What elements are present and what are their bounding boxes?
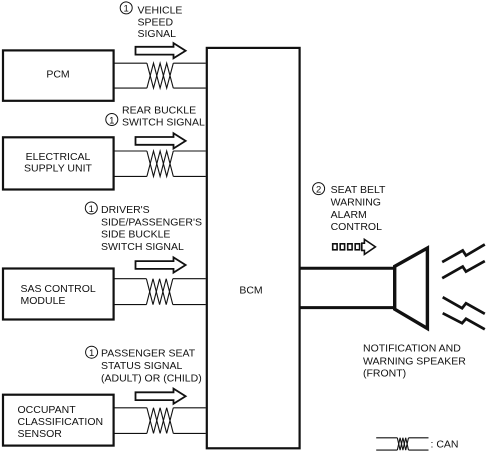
CAN bus ESU to BCM : wire top (115, 150, 206, 152)
svg-text:WARNING SPEAKER: WARNING SPEAKER (363, 355, 466, 367)
legend CAN symbol : wire top (376, 437, 428, 439)
svg-text:SENSOR: SENSOR (18, 428, 63, 440)
dashed control arrow : square 4 (355, 244, 359, 250)
svg-text:NOTIFICATION AND: NOTIFICATION AND (363, 343, 461, 355)
legend CAN symbol : wire bottom (376, 449, 428, 451)
svg-text:SAS CONTROL: SAS CONTROL (21, 283, 96, 295)
CAN bus SAS to BCM : wire bottom (114, 304, 206, 306)
module box SAS CONTROL MODULE (3, 269, 114, 320)
CAN bus PCM to BCM : wire bottom (115, 87, 206, 89)
svg-text:1: 1 (89, 204, 94, 215)
CAN bus SAS to BCM : wire top (114, 278, 206, 280)
svg-text:ELECTRICAL: ELECTRICAL (26, 151, 91, 163)
svg-text:REAR BUCKLE: REAR BUCKLE (122, 104, 196, 116)
signal arrow 3 buckle switch (136, 257, 186, 272)
svg-text:1: 1 (89, 348, 94, 359)
svg-text:ALARM: ALARM (331, 209, 367, 221)
module box ELECTRICAL SUPPLY UNIT (3, 137, 114, 189)
svg-text:(FRONT): (FRONT) (363, 367, 406, 379)
CAN bus PCM to BCM : wire top (115, 62, 206, 64)
note marker circle 1 (rear buckle) (106, 114, 118, 126)
svg-text:SIGNAL: SIGNAL (138, 28, 177, 40)
dashed control arrow : square 3 (348, 244, 352, 250)
CAN bus OCS to BCM : twisted pair strand B (147, 408, 173, 434)
svg-text:CLASSIFICATION: CLASSIFICATION (18, 416, 104, 428)
svg-text:SUPPLY UNIT: SUPPLY UNIT (24, 163, 92, 175)
svg-text:: CAN: : CAN (431, 438, 459, 450)
legend CAN symbol : twisted pair strand A (397, 438, 408, 450)
svg-text:MODULE: MODULE (21, 295, 66, 307)
CAN bus OCS to BCM : wire top (115, 407, 206, 409)
CAN bus ESU to BCM : twisted pair strand A (147, 151, 173, 176)
module box PCM (3, 50, 114, 100)
svg-text:PCM: PCM (46, 69, 69, 81)
svg-text:STATUS SIGNAL: STATUS SIGNAL (101, 360, 182, 372)
svg-text:DRIVER'S: DRIVER'S (101, 204, 150, 216)
note marker circle 1 (passenger seat status) (86, 346, 98, 358)
svg-text:CONTROL: CONTROL (331, 221, 382, 233)
CAN bus ESU to BCM : wire bottom (115, 175, 206, 177)
CAN bus OCS to BCM : wire bottom (115, 432, 206, 434)
note marker circle 2 (seat belt warning) (313, 183, 325, 195)
CAN bus PCM to BCM : twisted pair strand B (147, 63, 173, 88)
module box OCCUPANT CLASSIFICATION SENSOR (3, 395, 114, 446)
svg-text:BCM: BCM (239, 284, 262, 296)
CAN bus PCM to BCM : twisted pair strand A (147, 63, 173, 88)
svg-text:SWITCH SIGNAL: SWITCH SIGNAL (122, 117, 205, 129)
svg-text:1: 1 (124, 4, 129, 15)
legend CAN symbol : twisted pair strand B (397, 438, 408, 450)
signal arrow 4 passenger seat status (136, 389, 186, 404)
svg-text:SIDE BUCKLE: SIDE BUCKLE (101, 229, 170, 241)
svg-text:PASSENGER SEAT: PASSENGER SEAT (101, 348, 196, 360)
dashed control arrow : square 1 (333, 244, 337, 250)
sound wave bolt 3 (443, 297, 485, 314)
signal arrow 2 rear buckle (136, 133, 186, 148)
svg-text:(ADULT) OR (CHILD): (ADULT) OR (CHILD) (101, 372, 202, 384)
CAN bus OCS to BCM : twisted pair strand A (147, 408, 173, 434)
dashed control arrow : head (362, 239, 376, 254)
speaker wire top (299, 267, 395, 270)
dashed control arrow : square 2 (340, 244, 344, 250)
svg-text:SIDE/PASSENGER'S: SIDE/PASSENGER'S (101, 216, 202, 228)
speaker wire bottom (299, 306, 395, 309)
CAN bus SAS to BCM : twisted pair strand B (146, 279, 172, 305)
sound wave bolt 4 (443, 313, 485, 329)
svg-text:SPEED: SPEED (138, 16, 174, 28)
svg-text:2: 2 (316, 185, 321, 196)
speaker cone (395, 248, 428, 329)
sound wave bolt 1 (442, 244, 485, 262)
svg-text:WARNING: WARNING (331, 196, 381, 208)
module box BCM (207, 48, 300, 448)
note marker circle 1 (vehicle speed) (120, 2, 132, 14)
sound wave bolt 2 (442, 261, 485, 278)
svg-text:SEAT BELT: SEAT BELT (331, 184, 386, 196)
signal arrow 1 vehicle speed (136, 43, 186, 58)
svg-text:SWITCH SIGNAL: SWITCH SIGNAL (101, 241, 184, 253)
CAN bus SAS to BCM : twisted pair strand A (146, 279, 172, 305)
CAN bus ESU to BCM : twisted pair strand B (147, 151, 173, 176)
svg-text:VEHICLE: VEHICLE (138, 4, 183, 16)
svg-text:1: 1 (109, 115, 114, 126)
note marker circle 1 (buckle switch) (85, 202, 97, 214)
svg-text:OCCUPANT: OCCUPANT (18, 404, 77, 416)
